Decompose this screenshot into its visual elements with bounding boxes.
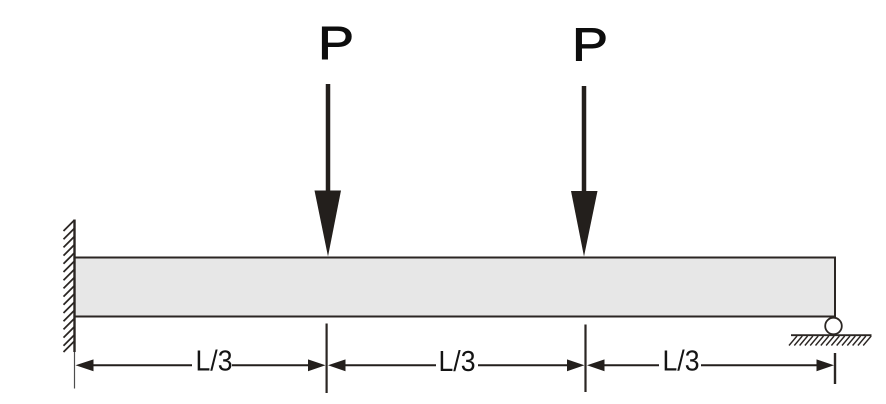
svg-text:L/3: L/3	[439, 346, 476, 378]
beam	[75, 258, 836, 317]
load arrow P2 shaft	[582, 86, 587, 200]
dimension tick right	[834, 353, 836, 384]
dimension arrow left-pointing at tick 1	[328, 359, 346, 371]
dimension label L/3 third	[663, 346, 700, 378]
dimension line segment D	[478, 364, 568, 366]
load arrow P1 shaft	[326, 84, 331, 200]
dimension label L/3 second	[439, 346, 476, 378]
dimension arrow right-pointing at tick 2	[567, 359, 584, 371]
dimension arrow left-pointing at tick 2	[587, 359, 605, 371]
dimension line segment E	[604, 364, 659, 366]
dimension line segment F	[701, 364, 817, 366]
roller support circle	[825, 318, 842, 335]
label P2	[572, 19, 608, 71]
dimension arrow right-pointing at tick 1	[308, 359, 326, 371]
ground hatching	[789, 336, 871, 346]
dimension tick 2	[584, 325, 586, 393]
dimension label L/3 first	[196, 346, 233, 378]
fixed support wall line	[73, 220, 75, 353]
svg-text:L/3: L/3	[663, 346, 700, 378]
label P1	[318, 17, 354, 69]
ground line	[791, 334, 872, 336]
dimension line segment B	[232, 364, 310, 366]
svg-text:P: P	[572, 19, 608, 71]
dimension tick 1	[326, 324, 328, 394]
dimension line segment C	[345, 364, 437, 366]
load arrow P1 head	[315, 191, 342, 257]
wall hatching	[64, 220, 75, 352]
dimension line segment A	[92, 364, 192, 366]
dimension arrow left (at wall)	[76, 359, 94, 371]
wall extension line (dimension extension)	[74, 352, 76, 389]
dimension arrow right-pointing at right tick	[817, 359, 835, 371]
load arrow P2 head	[571, 191, 598, 257]
svg-text:L/3: L/3	[196, 346, 233, 378]
svg-text:P: P	[318, 17, 354, 69]
